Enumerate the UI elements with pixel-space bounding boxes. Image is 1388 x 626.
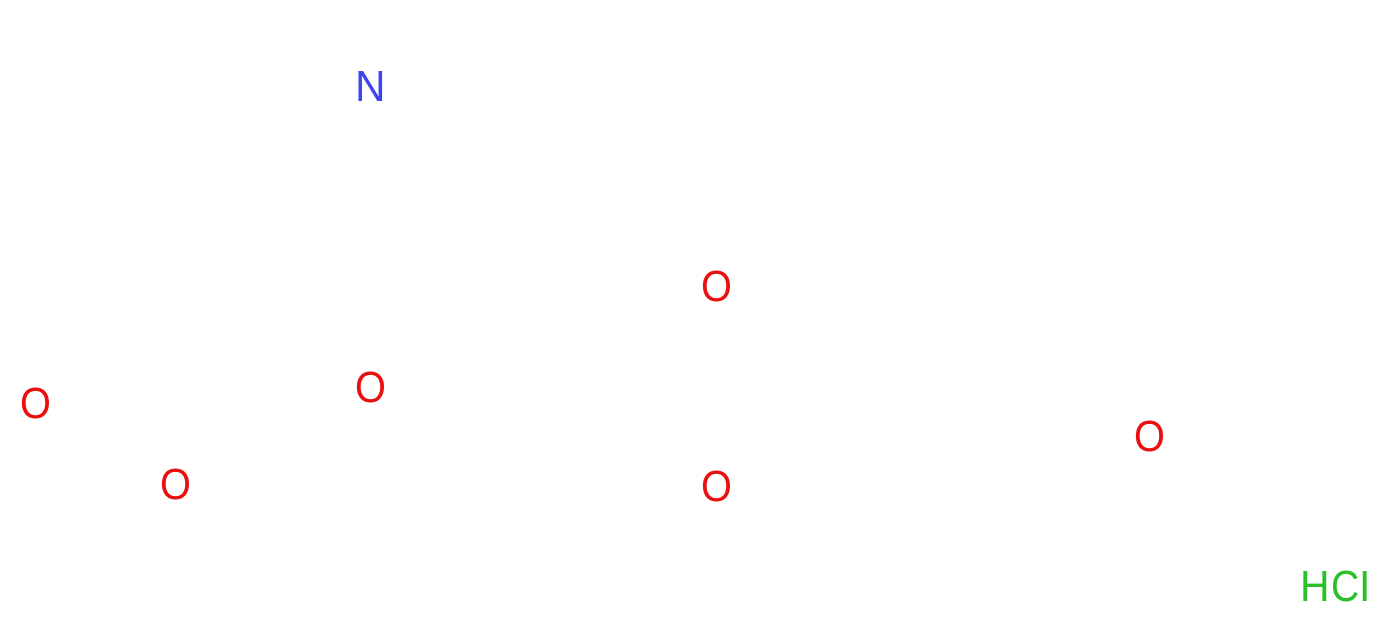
node O2 : ether oxygen label, middle left-center (red): [355, 366, 386, 410]
node O4 : lactone ring oxygen label, lower left (red): [160, 463, 191, 507]
node O6 : methoxy oxygen label, right side (red): [1134, 415, 1165, 459]
node O3 : carbonyl oxygen label, far left (red): [20, 382, 51, 426]
node N1 : nitrogen atom label (blue): [355, 65, 386, 109]
node HCl : hydrochloride counter-ion, letter l (green): [1359, 565, 1370, 609]
node HCl : hydrochloride counter-ion, letter C (green): [1331, 565, 1359, 609]
node O1 : ether oxygen label, top middle-right (red): [701, 265, 732, 309]
node O5 : ether oxygen label, lower middle (red): [701, 465, 732, 509]
node HCl : hydrochloride counter-ion, letter H (green): [1300, 565, 1330, 609]
